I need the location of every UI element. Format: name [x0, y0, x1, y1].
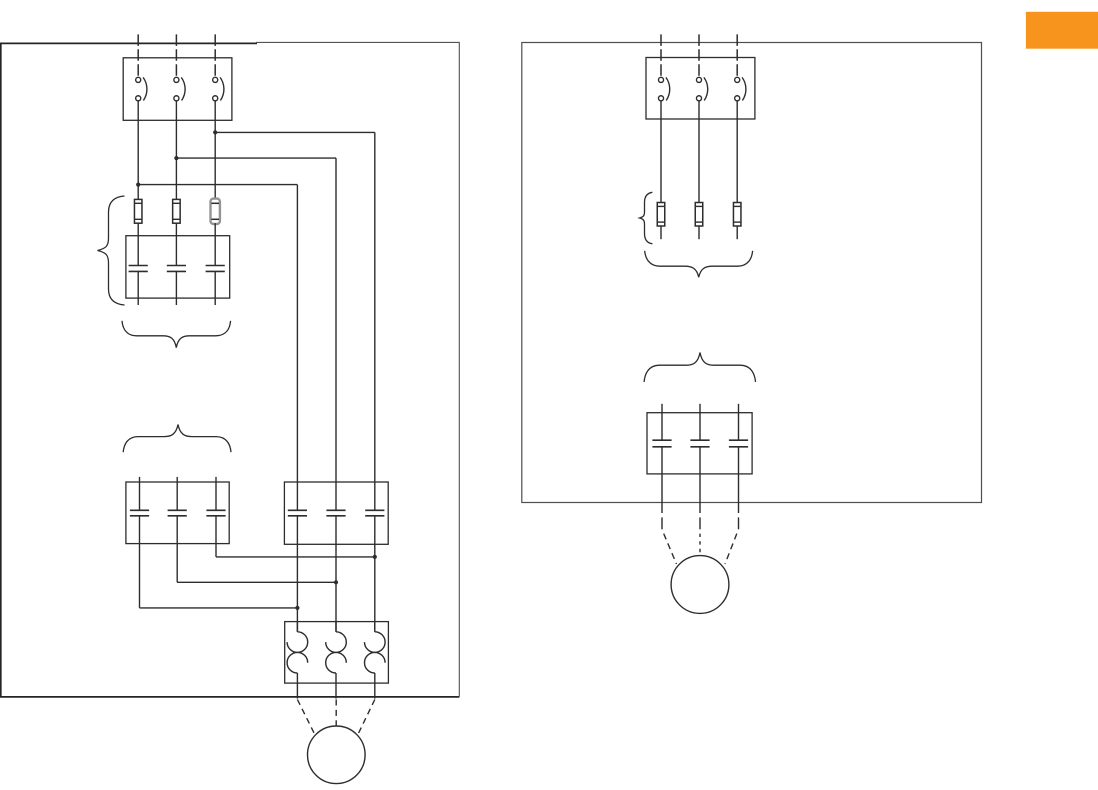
capacitor bank C4 box	[647, 413, 752, 474]
wire switch pole6 to fuse F6	[736, 101, 738, 203]
switch pole 6 supply line (dashed)	[736, 34, 738, 77]
capacitor C2c plates	[206, 510, 225, 516]
wire capacitor C1a bottom lead	[137, 271, 139, 305]
wire capacitor C1c bottom lead	[214, 271, 216, 305]
under-brace below capacitor bank C1	[122, 321, 231, 348]
motor M1 lead 3 (dashed)	[358, 700, 375, 736]
wire fuse F4 bottom stub	[660, 226, 662, 239]
wire tap L3 vertical to capacitor bank C3	[374, 132, 376, 510]
wire tap L1 vertical to capacitor bank C3	[296, 185, 298, 511]
right enclosure box	[522, 43, 982, 503]
junction node tap L1	[136, 183, 140, 187]
under-brace below fuses	[645, 251, 753, 277]
junction bus3-C2c	[373, 555, 377, 559]
capacitor C3c plates	[365, 510, 384, 516]
wire capacitor C4c bottom lead	[738, 447, 740, 513]
fuse F1	[134, 199, 142, 223]
capacitor C1b plates	[167, 266, 186, 272]
switch pole 5 fixed contact (top)	[696, 77, 701, 82]
fuse F3	[211, 199, 220, 224]
switch pole 6 blade arc	[742, 77, 746, 100]
wire capacitor C2c top stub	[215, 477, 217, 510]
switch pole 5 fixed contact (bottom)	[696, 96, 701, 101]
left brace (fuses F4-F6)	[640, 192, 653, 244]
reactor coil pole 3	[365, 622, 386, 699]
switch pole 2 fixed contact (bottom)	[174, 96, 179, 101]
switch pole 3 supply line (dashed)	[214, 34, 216, 77]
wire C2b horizontal to bus 2	[177, 581, 336, 583]
switch pole 4 fixed contact (top)	[658, 77, 663, 82]
junction node tap L3	[213, 130, 217, 134]
wire fuse F5 bottom stub	[698, 226, 700, 239]
switch pole 4 supply line (dashed)	[660, 34, 662, 77]
wire capacitor C2b top stub	[176, 477, 178, 510]
wire switch pole3 to fuse F3	[214, 101, 216, 199]
junction node tap L2	[174, 156, 178, 160]
capacitor bank C3 box	[284, 482, 388, 544]
fuse F6	[733, 203, 741, 227]
capacitor C3b plates	[326, 510, 345, 516]
capacitor C1c plates	[206, 266, 225, 272]
reactor coil pole 1	[287, 622, 308, 699]
capacitor bank C1 box	[126, 236, 230, 298]
motor M2 lead 2 (dashed)	[699, 517, 701, 555]
motor M1 lead 2 (dashed)	[335, 700, 337, 727]
wire C2a horizontal to bus 1	[140, 607, 298, 609]
motor M1 lead 1 (dashed)	[297, 700, 315, 736]
wire bus 1 to reactor	[296, 516, 298, 632]
wire bus 3 to reactor	[374, 516, 376, 632]
orange corner tab	[1026, 12, 1098, 49]
disconnect switch Q2 box	[646, 58, 755, 120]
wire C2c horizontal to bus 3	[216, 556, 375, 558]
left enclosure box (light edges)	[256, 42, 459, 697]
switch pole 2 blade arc	[181, 77, 185, 100]
wire fuse F6 bottom stub	[736, 226, 738, 239]
switch pole 5 blade arc	[704, 77, 708, 100]
capacitor C4b plates	[690, 440, 709, 447]
capacitor C2a plates	[130, 510, 149, 516]
wire tap L3 horizontal	[215, 131, 375, 133]
wire switch pole4 to fuse F4	[660, 101, 662, 203]
capacitor C3a plates	[288, 510, 307, 516]
motor M2 lead 3 (dashed)	[725, 517, 739, 564]
wire tap L2 horizontal	[176, 157, 336, 159]
reactor K1 box	[285, 622, 389, 684]
switch pole 1 fixed contact (top)	[136, 77, 141, 82]
switch pole 1 supply line (dashed)	[137, 34, 139, 77]
wire switch pole2 to fuse F2	[175, 101, 177, 199]
wire switch pole5 to fuse F5	[698, 101, 700, 203]
switch pole 3 fixed contact (bottom)	[213, 96, 218, 101]
switch pole 4 fixed contact (bottom)	[658, 96, 663, 101]
capacitor bank C2 box	[126, 482, 229, 544]
junction bus2-C2b	[334, 580, 338, 584]
wire capacitor C4a bottom lead	[661, 447, 663, 513]
capacitor C1a plates	[129, 266, 148, 272]
wire capacitor C4a top stub	[661, 404, 663, 440]
disconnect switch Q1 box	[123, 58, 232, 121]
motor M1	[308, 726, 366, 784]
wire fuse F1 to capacitor C1a	[137, 223, 139, 265]
wire capacitor C2c down	[215, 516, 217, 557]
over-brace above capacitor bank C2	[123, 425, 231, 453]
switch pole 2 supply line (dashed)	[175, 34, 177, 77]
wire capacitor C4b top stub	[699, 404, 701, 440]
capacitor C2b plates	[168, 510, 187, 516]
wire bus 2 to reactor	[335, 516, 337, 632]
switch pole 1 blade arc	[143, 77, 147, 100]
capacitor C4c plates	[729, 440, 748, 447]
switch pole 6 fixed contact (top)	[735, 77, 740, 82]
wire capacitor C4b bottom lead	[699, 447, 701, 513]
wire fuse F2 to capacitor C1b	[175, 223, 177, 265]
switch pole 6 fixed contact (bottom)	[735, 96, 740, 101]
wire capacitor C2a down	[139, 516, 141, 608]
wire capacitor C4c top stub	[738, 404, 740, 440]
switch pole 5 supply line (dashed)	[698, 34, 700, 77]
wire fuse F3 to capacitor C1c	[214, 223, 216, 265]
switch pole 2 fixed contact (top)	[174, 77, 179, 82]
motor M2 lead 1 (dashed)	[662, 517, 677, 564]
wire capacitor C2b down	[176, 516, 178, 583]
switch pole 3 fixed contact (top)	[213, 77, 218, 82]
left brace (fuses + capacitor bank C1)	[98, 196, 125, 305]
switch pole 4 blade arc	[666, 77, 670, 100]
left enclosure box (dark edges)	[1, 43, 460, 697]
fuse F5	[695, 203, 703, 227]
over-brace above capacitor bank C4	[644, 353, 755, 383]
wire switch pole1 to fuse F1	[137, 101, 139, 199]
fuse F2	[173, 199, 181, 223]
motor M2	[671, 556, 729, 614]
fuse F4	[657, 203, 665, 227]
wire tap L2 vertical to capacitor bank C3	[335, 158, 337, 510]
wire tap L1 horizontal	[138, 184, 297, 186]
wire capacitor C2a top stub	[139, 477, 141, 510]
reactor coil pole 2	[326, 622, 347, 699]
capacitor C4a plates	[652, 440, 671, 447]
junction bus1-C2a	[295, 606, 299, 610]
switch pole 3 blade arc	[220, 77, 224, 100]
wire capacitor C1b bottom lead	[175, 271, 177, 305]
switch pole 1 fixed contact (bottom)	[136, 96, 141, 101]
